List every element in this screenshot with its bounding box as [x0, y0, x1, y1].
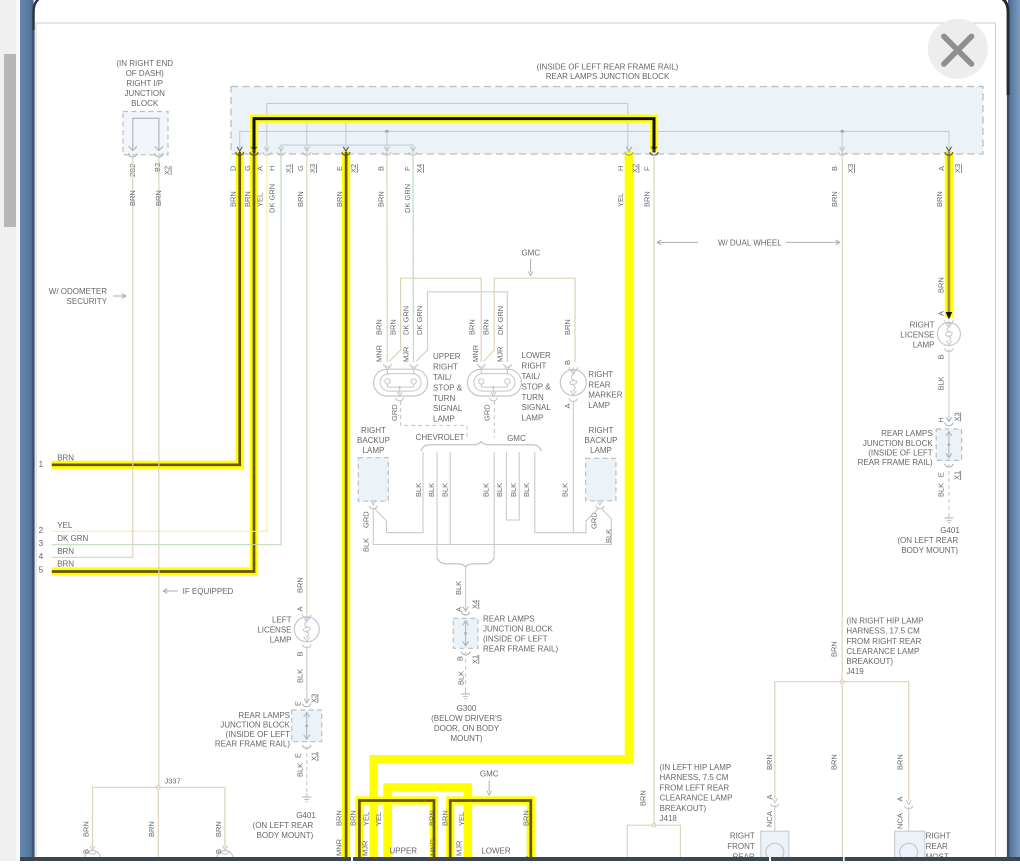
svg-text:DK GRN: DK GRN: [57, 534, 88, 543]
svg-text:RIGHT: RIGHT: [926, 832, 951, 841]
svg-text:BRN: BRN: [57, 547, 74, 556]
svg-text:BLK: BLK: [427, 483, 436, 497]
svg-text:A: A: [563, 403, 572, 408]
lamp right rear most: [895, 831, 925, 861]
svg-text:BRN: BRN: [830, 641, 839, 657]
svg-text:REAR: REAR: [588, 380, 610, 389]
wire BRN GMC rail left segment: [389, 278, 481, 362]
svg-text:4: 4: [39, 551, 44, 561]
node J337: [156, 785, 160, 789]
highlighted circuit wire BRN pin E down to upper-left lamp: [342, 151, 350, 861]
svg-text:MARKER: MARKER: [588, 391, 622, 400]
svg-text:G300: G300: [457, 704, 477, 713]
svg-text:BRN: BRN: [642, 191, 651, 207]
svg-text:BLK: BLK: [296, 669, 305, 683]
svg-text:LOWER: LOWER: [481, 846, 511, 855]
highlighted circuit wire YEL pin H X2 down and across bottom: [374, 151, 629, 861]
lamp lower right tail/stop: [467, 369, 521, 396]
wire BRN GMC rail right segment: [484, 278, 576, 362]
svg-text:5: 5: [39, 565, 44, 575]
svg-text:BRN: BRN: [428, 810, 437, 826]
svg-text:HARNESS, 17.5 CM: HARNESS, 17.5 CM: [846, 627, 920, 636]
svg-text:DK GRN: DK GRN: [268, 184, 277, 213]
lamp right front rear: [761, 831, 789, 861]
svg-text:BLK: BLK: [454, 581, 463, 595]
wire riser pin E: [345, 120, 347, 150]
svg-text:BLK: BLK: [937, 483, 946, 497]
junction block right column: [946, 417, 951, 422]
svg-text:IF EQUIPPED: IF EQUIPPED: [183, 587, 234, 596]
wire BLK license to junction block: [306, 646, 308, 703]
svg-text:BRN: BRN: [243, 191, 252, 207]
svg-text:MNR: MNR: [471, 344, 480, 362]
svg-text:UPPER: UPPER: [433, 352, 461, 361]
junction block (inside of left rear frame rail) rear lamps junction block: [231, 87, 983, 155]
wire core BRN upper mnr rail: [359, 801, 434, 862]
svg-text:TURN: TURN: [433, 394, 455, 403]
stub wire 2 YEL: [52, 152, 267, 531]
svg-text:B: B: [377, 166, 386, 171]
wire riser pin G (2nd): [306, 120, 308, 150]
svg-text:A: A: [256, 166, 265, 171]
wires BLK chevrolet group: [375, 452, 423, 533]
wire BLK to G300: [465, 568, 467, 611]
svg-text:X4: X4: [415, 164, 424, 173]
svg-text:X2: X2: [631, 164, 640, 173]
svg-text:BRN: BRN: [388, 319, 397, 335]
node riser to pin B X3: [841, 130, 844, 133]
svg-text:LAMP: LAMP: [363, 446, 385, 455]
svg-text:BLOCK: BLOCK: [131, 99, 159, 108]
wire BLK dashed to ground G401 right: [948, 464, 950, 514]
svg-text:REAR FRAME RAIL): REAR FRAME RAIL): [215, 740, 290, 749]
wire core BLK bus pin G to pin F: [254, 119, 654, 153]
svg-text:GMC: GMC: [521, 249, 540, 258]
svg-text:E: E: [335, 166, 344, 171]
svg-text:BRN: BRN: [335, 191, 344, 207]
pin right front rear lamp: [772, 798, 777, 803]
svg-text:LAMP: LAMP: [590, 446, 612, 455]
svg-text:LICENSE: LICENSE: [257, 626, 291, 635]
svg-text:BLK: BLK: [441, 483, 450, 497]
svg-text:RIGHT: RIGHT: [910, 321, 935, 330]
svg-text:LICENSE: LICENSE: [900, 331, 934, 340]
svg-text:BRN: BRN: [375, 319, 384, 335]
node J418: [652, 823, 656, 827]
svg-text:1: 1: [39, 459, 44, 469]
arrow into right license lamp: [946, 312, 953, 320]
svg-text:BLK: BLK: [522, 483, 531, 497]
wire BLK long ground bus: [373, 509, 611, 545]
svg-text:JUNCTION: JUNCTION: [124, 89, 165, 98]
wire rail A-to-H inside junction block: [267, 103, 628, 150]
svg-text:B: B: [296, 651, 305, 656]
wire GRD dashed lower tail: [493, 401, 495, 438]
svg-text:DK GRN: DK GRN: [402, 306, 411, 335]
svg-text:DK GRN: DK GRN: [415, 306, 424, 335]
svg-text:RIGHT: RIGHT: [589, 426, 614, 435]
svg-text:BRN: BRN: [563, 319, 572, 335]
svg-text:DK GRN: DK GRN: [496, 306, 505, 335]
svg-text:X3: X3: [952, 412, 961, 421]
page background strip left (blue): [0, 0, 1, 1]
svg-text:MJR: MJR: [361, 840, 370, 856]
svg-text:LEFT: LEFT: [272, 616, 292, 625]
svg-text:REAR LAMPS: REAR LAMPS: [238, 711, 290, 720]
svg-text:BRN: BRN: [638, 790, 647, 806]
svg-text:BODY MOUNT): BODY MOUNT): [257, 831, 314, 840]
svg-text:REAR FRAME RAIL): REAR FRAME RAIL): [858, 458, 933, 467]
svg-text:BRN: BRN: [335, 810, 344, 826]
svg-text:STOP &: STOP &: [522, 382, 552, 391]
svg-text:X1: X1: [284, 164, 293, 173]
svg-text:H: H: [937, 417, 946, 422]
svg-text:LAMP: LAMP: [913, 340, 935, 349]
svg-text:RIGHT: RIGHT: [361, 426, 386, 435]
svg-text:B2: B2: [153, 163, 162, 172]
svg-text:BRN: BRN: [830, 754, 839, 770]
svg-text:BLK: BLK: [296, 763, 305, 777]
svg-text:E: E: [294, 701, 303, 706]
svg-text:RIGHT: RIGHT: [588, 370, 613, 379]
svg-text:B: B: [937, 355, 946, 360]
svg-text:JUNCTION BLOCK: JUNCTION BLOCK: [220, 721, 290, 730]
svg-text:BLK: BLK: [937, 376, 946, 390]
browser background left gutter: [0, 0, 20, 861]
ground G401 left: [306, 793, 308, 797]
svg-text:NCA: NCA: [765, 811, 774, 827]
svg-text:RIGHT: RIGHT: [433, 363, 458, 372]
pin and lamp bottom-left 1: [90, 846, 95, 851]
stub wire 3 DK GRN: [52, 152, 281, 545]
svg-text:TAIL/: TAIL/: [522, 372, 541, 381]
svg-text:FROM LEFT REAR: FROM LEFT REAR: [660, 783, 730, 792]
svg-text:YEL: YEL: [57, 521, 73, 530]
svg-text:GRD: GRD: [390, 404, 399, 421]
svg-text:BRN: BRN: [937, 277, 946, 293]
wire DK GRN pin F X4 to upper mjr: [412, 152, 414, 362]
stub wire 4 BRN from I/P block: [52, 155, 133, 557]
svg-text:LAMP: LAMP: [588, 401, 610, 410]
svg-text:BLK: BLK: [414, 483, 423, 497]
svg-text:SECURITY: SECURITY: [67, 297, 108, 306]
svg-text:BRN: BRN: [229, 191, 238, 207]
svg-text:BRN: BRN: [765, 754, 774, 770]
svg-text:BODY MOUNT): BODY MOUNT): [901, 546, 958, 555]
junction block G300 column: [463, 607, 468, 612]
svg-text:BLK: BLK: [495, 483, 504, 497]
svg-text:3: 3: [39, 538, 44, 548]
svg-text:BLK: BLK: [561, 483, 570, 497]
svg-text:RIGHT I/P: RIGHT I/P: [126, 79, 163, 88]
svg-text:H: H: [268, 166, 277, 171]
svg-text:B: B: [563, 360, 572, 365]
wire DK GRN CHEVROLET rail: [416, 292, 508, 362]
scrollbar thumb: [4, 54, 16, 227]
connector pins on junction block: [264, 147, 269, 152]
svg-text:TAIL/: TAIL/: [433, 373, 452, 382]
svg-text:MNR: MNR: [429, 838, 438, 856]
svg-text:J418: J418: [660, 814, 678, 823]
svg-text:BRN: BRN: [377, 191, 386, 207]
svg-text:G401: G401: [296, 811, 316, 820]
wire BRN pin B X3 down right column: [841, 152, 843, 861]
wire rail D-to-A(X3) inside junction block: [240, 131, 949, 150]
svg-text:GMC: GMC: [507, 434, 526, 443]
node J419: [840, 680, 844, 684]
svg-text:OF DASH): OF DASH): [126, 69, 165, 78]
svg-text:BLK: BLK: [509, 483, 518, 497]
svg-text:BLK: BLK: [482, 483, 491, 497]
svg-text:YEL: YEL: [256, 193, 265, 207]
svg-text:BRN: BRN: [482, 319, 491, 335]
bottom strip: [20, 857, 1020, 861]
wire BLK right backup grd diag: [573, 509, 598, 533]
svg-text:YEL: YEL: [374, 812, 383, 826]
svg-text:W/ DUAL WHEEL: W/ DUAL WHEEL: [718, 238, 782, 247]
svg-text:F: F: [403, 166, 412, 171]
svg-text:REAR LAMPS: REAR LAMPS: [881, 429, 933, 438]
pin 2B2: [129, 146, 137, 150]
wire core BRN stub5 to pin G: [52, 152, 254, 572]
svg-text:BRN: BRN: [296, 191, 305, 207]
svg-text:MJR: MJR: [496, 346, 505, 362]
svg-text:BACKUP: BACKUP: [357, 436, 390, 445]
svg-text:BREAKOUT): BREAKOUT): [660, 804, 707, 813]
svg-text:BRN: BRN: [441, 810, 450, 826]
close button: [928, 19, 988, 79]
ground G300: [465, 690, 467, 694]
svg-text:JUNCTION BLOCK: JUNCTION BLOCK: [483, 625, 553, 634]
svg-text:FROM RIGHT REAR: FROM RIGHT REAR: [846, 637, 921, 646]
lamp left license: [294, 617, 319, 642]
lamp right license: [937, 323, 960, 346]
svg-text:(INSIDE OF LEFT REAR FRAME RAI: (INSIDE OF LEFT REAR FRAME RAIL): [537, 62, 679, 71]
svg-text:HARNESS, 7.5 CM: HARNESS, 7.5 CM: [660, 773, 729, 782]
wire BRN pin F to J418: [653, 152, 655, 825]
svg-text:W/ ODOMETER: W/ ODOMETER: [49, 287, 107, 296]
svg-text:REAR FRAME RAIL): REAR FRAME RAIL): [483, 645, 558, 654]
svg-text:BRN: BRN: [128, 190, 137, 206]
svg-text:X1: X1: [952, 471, 961, 480]
svg-text:(INSIDE OF LEFT: (INSIDE OF LEFT: [483, 635, 548, 644]
wire core BRN pin E: [345, 152, 348, 858]
svg-text:B: B: [214, 849, 223, 854]
svg-text:CHEVROLET: CHEVROLET: [416, 433, 465, 442]
svg-text:X2: X2: [163, 166, 172, 175]
svg-text:BACKUP: BACKUP: [585, 436, 618, 445]
svg-text:BREAKOUT): BREAKOUT): [846, 657, 893, 666]
svg-text:GRD: GRD: [482, 404, 491, 421]
svg-text:FRONT: FRONT: [727, 842, 755, 851]
highlighted circuit wire BRN pin D to stub 1: [52, 151, 240, 465]
svg-text:BLK: BLK: [457, 671, 466, 685]
svg-text:G: G: [296, 165, 305, 171]
svg-text:UPPER: UPPER: [390, 846, 418, 855]
wire BLK dashed to ground G300: [465, 652, 467, 690]
wire core BRN lower mnr rail: [450, 801, 531, 862]
svg-text:J419: J419: [846, 667, 864, 676]
svg-text:MNR: MNR: [375, 344, 384, 362]
page background strip right (blue): [0, 0, 1, 1]
svg-text:(INSIDE OF LEFT: (INSIDE OF LEFT: [868, 448, 933, 457]
junction block left (rear lamps junction block): [292, 710, 322, 742]
svg-text:(INSIDE OF LEFT: (INSIDE OF LEFT: [226, 730, 291, 739]
wire core BRN pin D: [52, 152, 240, 465]
svg-text:(IN RIGHT HIP LAMP: (IN RIGHT HIP LAMP: [846, 617, 923, 626]
svg-text:RIGHT: RIGHT: [522, 362, 547, 371]
svg-text:SIGNAL: SIGNAL: [522, 403, 552, 412]
svg-text:MJR: MJR: [402, 346, 411, 362]
svg-text:RIGHT: RIGHT: [730, 832, 755, 841]
svg-text:X3: X3: [846, 164, 855, 173]
svg-text:X3: X3: [953, 164, 962, 173]
svg-text:CLEARANCE LAMP: CLEARANCE LAMP: [660, 794, 733, 803]
svg-text:SIGNAL: SIGNAL: [433, 404, 463, 413]
brace upper variants: [421, 442, 542, 451]
svg-text:LAMP: LAMP: [522, 414, 544, 423]
svg-text:G: G: [243, 165, 252, 171]
wire BLK marker lamp down: [572, 402, 574, 533]
svg-text:MOUNT): MOUNT): [451, 734, 483, 743]
svg-text:CLEARANCE LAMP: CLEARANCE LAMP: [846, 647, 919, 656]
svg-text:X2: X2: [349, 164, 358, 173]
wires BLK gmc group: [493, 452, 495, 557]
svg-text:LOWER: LOWER: [522, 351, 552, 360]
pin right rear most lamp: [906, 800, 911, 805]
svg-text:A: A: [296, 606, 305, 611]
svg-text:BRN: BRN: [468, 319, 477, 335]
svg-text:X3: X3: [308, 164, 317, 173]
svg-text:E: E: [294, 753, 303, 758]
wire BRN pin B to upper mnr: [386, 152, 388, 362]
svg-text:YEL: YEL: [362, 812, 371, 826]
wire loop inside I/P junction block: [133, 118, 159, 150]
svg-text:BRN: BRN: [522, 810, 531, 826]
svg-text:MJR: MJR: [455, 840, 464, 856]
svg-text:GRD: GRD: [361, 511, 370, 528]
svg-text:LAMP: LAMP: [433, 415, 455, 424]
svg-text:A: A: [455, 607, 464, 612]
wire BLK dashed to ground G401: [306, 746, 308, 793]
svg-text:JUNCTION BLOCK: JUNCTION BLOCK: [863, 439, 933, 448]
svg-text:2: 2: [39, 525, 44, 535]
svg-text:TURN: TURN: [522, 393, 544, 402]
svg-text:X4: X4: [470, 600, 479, 609]
highlighted circuit wire BRN rail lower lamp mnr (GMC): [450, 801, 531, 862]
highlighted circuit wire BRN pin A X3 to right license lamp: [945, 151, 953, 317]
junction block header right I/P: [123, 112, 168, 155]
wire BRN pin G2 to left license lamp: [306, 152, 308, 614]
svg-text:MNR: MNR: [335, 838, 344, 856]
highlighted circuit wire BRN rail upper lamp mnr: [359, 801, 434, 862]
svg-text:X1: X1: [470, 655, 479, 664]
svg-text:STOP &: STOP &: [433, 383, 463, 392]
svg-text:B: B: [830, 166, 839, 171]
page corner outline top-left: [34, 0, 50, 30]
page corner outline top-right: [992, 0, 1008, 95]
svg-text:F: F: [642, 166, 651, 171]
wire BRN J337 branches: [93, 787, 226, 848]
lamp right rear marker: [560, 370, 586, 396]
svg-text:BRN: BRN: [896, 754, 905, 770]
svg-text:X3: X3: [310, 694, 319, 703]
wire BRN J418 branches: [627, 825, 680, 861]
svg-text:E: E: [937, 472, 946, 477]
svg-text:X1: X1: [310, 752, 319, 761]
wire BLK right license down: [948, 349, 950, 421]
highlighted circuit wire YEL lower rail n-shape: [388, 787, 468, 861]
svg-text:B: B: [456, 656, 465, 661]
svg-text:BRN: BRN: [349, 810, 358, 826]
svg-text:BRN: BRN: [82, 821, 91, 837]
svg-text:GRD: GRD: [589, 512, 598, 529]
svg-text:BLK: BLK: [361, 538, 370, 552]
svg-text:GMC: GMC: [480, 769, 499, 778]
svg-text:BRN: BRN: [154, 190, 163, 206]
svg-text:G401: G401: [940, 526, 960, 535]
svg-text:H: H: [616, 166, 625, 171]
highlighted circuit wire pin G bus to pin F and stub 5: [52, 119, 654, 572]
lamp upper right tail/stop: [374, 369, 428, 396]
svg-text:(BELOW DRIVER'S: (BELOW DRIVER'S: [431, 714, 502, 723]
svg-text:(ON LEFT REAR: (ON LEFT REAR: [253, 821, 314, 830]
svg-text:A: A: [937, 311, 946, 316]
svg-text:A: A: [937, 166, 946, 171]
svg-text:BRN: BRN: [935, 191, 944, 207]
svg-text:REAR LAMPS: REAR LAMPS: [483, 615, 535, 624]
svg-text:REAR: REAR: [926, 842, 948, 851]
wire BRN J419 branches: [775, 682, 909, 801]
svg-text:NCA: NCA: [896, 813, 905, 829]
svg-text:BRN: BRN: [214, 821, 223, 837]
wire rail H-to-F(X4) inside junction block: [281, 145, 413, 150]
svg-text:BRN: BRN: [147, 821, 156, 837]
svg-text:B: B: [82, 849, 91, 854]
svg-text:BRN: BRN: [296, 577, 305, 593]
brace lower merge: [437, 558, 494, 568]
pin and lamp bottom-left 2: [222, 846, 227, 851]
svg-text:(IN RIGHT END: (IN RIGHT END: [116, 59, 173, 68]
svg-text:YEL: YEL: [616, 193, 625, 207]
svg-text:BRN: BRN: [57, 454, 74, 463]
svg-text:D: D: [229, 165, 238, 171]
svg-text:(IN LEFT HIP LAMP: (IN LEFT HIP LAMP: [660, 763, 732, 772]
svg-text:DK GRN: DK GRN: [403, 184, 412, 213]
svg-text:REAR LAMPS JUNCTION BLOCK: REAR LAMPS JUNCTION BLOCK: [546, 72, 670, 81]
svg-text:BRN: BRN: [57, 560, 74, 569]
pin B2 X2: [155, 146, 163, 150]
wire BRN B2 to J337: [158, 155, 160, 787]
wire GRD dashed upper tail: [401, 401, 467, 438]
svg-text:YEL: YEL: [457, 812, 466, 826]
ground G401 right: [948, 514, 950, 518]
svg-text:BRN: BRN: [830, 191, 839, 207]
svg-text:(ON LEFT REAR: (ON LEFT REAR: [897, 536, 958, 545]
svg-text:J337: J337: [165, 777, 181, 786]
svg-text:A: A: [896, 796, 905, 801]
svg-text:DOOR, ON BODY: DOOR, ON BODY: [434, 724, 500, 733]
node riser to pin B: [385, 130, 388, 133]
svg-text:LAMP: LAMP: [270, 636, 292, 645]
wire core BRN right license feed: [948, 152, 951, 312]
